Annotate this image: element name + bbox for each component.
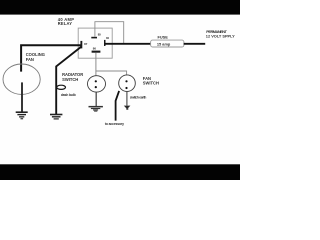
relay pin 30 terminal xyxy=(104,40,106,46)
wire pin 30 to fuse xyxy=(105,43,151,45)
wire radiator switch to ground xyxy=(95,93,97,107)
dash bulb DS1 xyxy=(57,85,66,89)
radiator switch contact top xyxy=(95,80,97,82)
fan switch S2 body xyxy=(119,75,136,92)
relay K1 body xyxy=(78,28,112,58)
svg-text:switch earth: switch earth xyxy=(130,96,146,100)
relay pin 86 terminal xyxy=(92,51,101,53)
svg-text:FAN: FAN xyxy=(26,57,34,62)
wire fan to ground xyxy=(21,82,23,112)
svg-text:SWITCH: SWITCH xyxy=(143,81,159,86)
label COOLING FAN xyxy=(26,52,45,62)
svg-text:SWITCH: SWITCH xyxy=(62,77,78,82)
svg-text:FUSE: FUSE xyxy=(158,35,169,40)
svg-text:12 VOLT SPPLY: 12 VOLT SPPLY xyxy=(206,34,235,39)
ground cooling fan xyxy=(16,111,28,119)
label RADIATOR SWITCH xyxy=(62,72,83,82)
ground dash bulb xyxy=(50,114,62,120)
radiator switch S1 body xyxy=(88,76,106,92)
svg-text:RELAY: RELAY xyxy=(58,21,72,26)
fan switch contact bottom xyxy=(125,87,127,89)
label FAN SWITCH xyxy=(143,76,159,86)
label 40 AMP RELAY xyxy=(58,17,74,26)
wire pin 86 down to switch junction xyxy=(95,53,97,76)
svg-text:dash bulb: dash bulb xyxy=(61,93,76,97)
svg-text:85: 85 xyxy=(98,33,102,37)
svg-text:86: 86 xyxy=(93,46,97,50)
wire fan switch to accessory xyxy=(116,91,120,121)
svg-text:15 amp: 15 amp xyxy=(157,41,171,46)
wire junction branch to fan switch xyxy=(96,71,127,75)
wire fuse to permanent supply xyxy=(184,43,206,45)
fuse F1 xyxy=(151,40,184,47)
wire pin 85 up-and-over to supply net xyxy=(95,22,124,44)
net label PERMANENT 12 VOLT SPPLY xyxy=(206,29,235,39)
cooling fan motor M1 xyxy=(3,64,40,94)
relay pin 85 terminal xyxy=(91,37,97,39)
svg-text:87: 87 xyxy=(84,42,88,46)
earth fan switch arrow xyxy=(124,106,131,110)
svg-text:30: 30 xyxy=(106,36,110,40)
svg-text:to accessory: to accessory xyxy=(105,122,124,126)
ground radiator switch xyxy=(89,106,103,112)
wire fan switch to earth xyxy=(126,91,128,105)
fan switch contact top xyxy=(125,80,127,82)
relay pin 87 terminal xyxy=(80,41,82,49)
letterbox bottom bar xyxy=(0,164,240,180)
wire pin 87 to cooling fan xyxy=(21,45,80,71)
radiator switch contact bottom xyxy=(95,86,97,88)
wire pin 87 diagonal to dash bulb branch xyxy=(56,47,81,114)
letterbox top bar xyxy=(0,0,240,15)
